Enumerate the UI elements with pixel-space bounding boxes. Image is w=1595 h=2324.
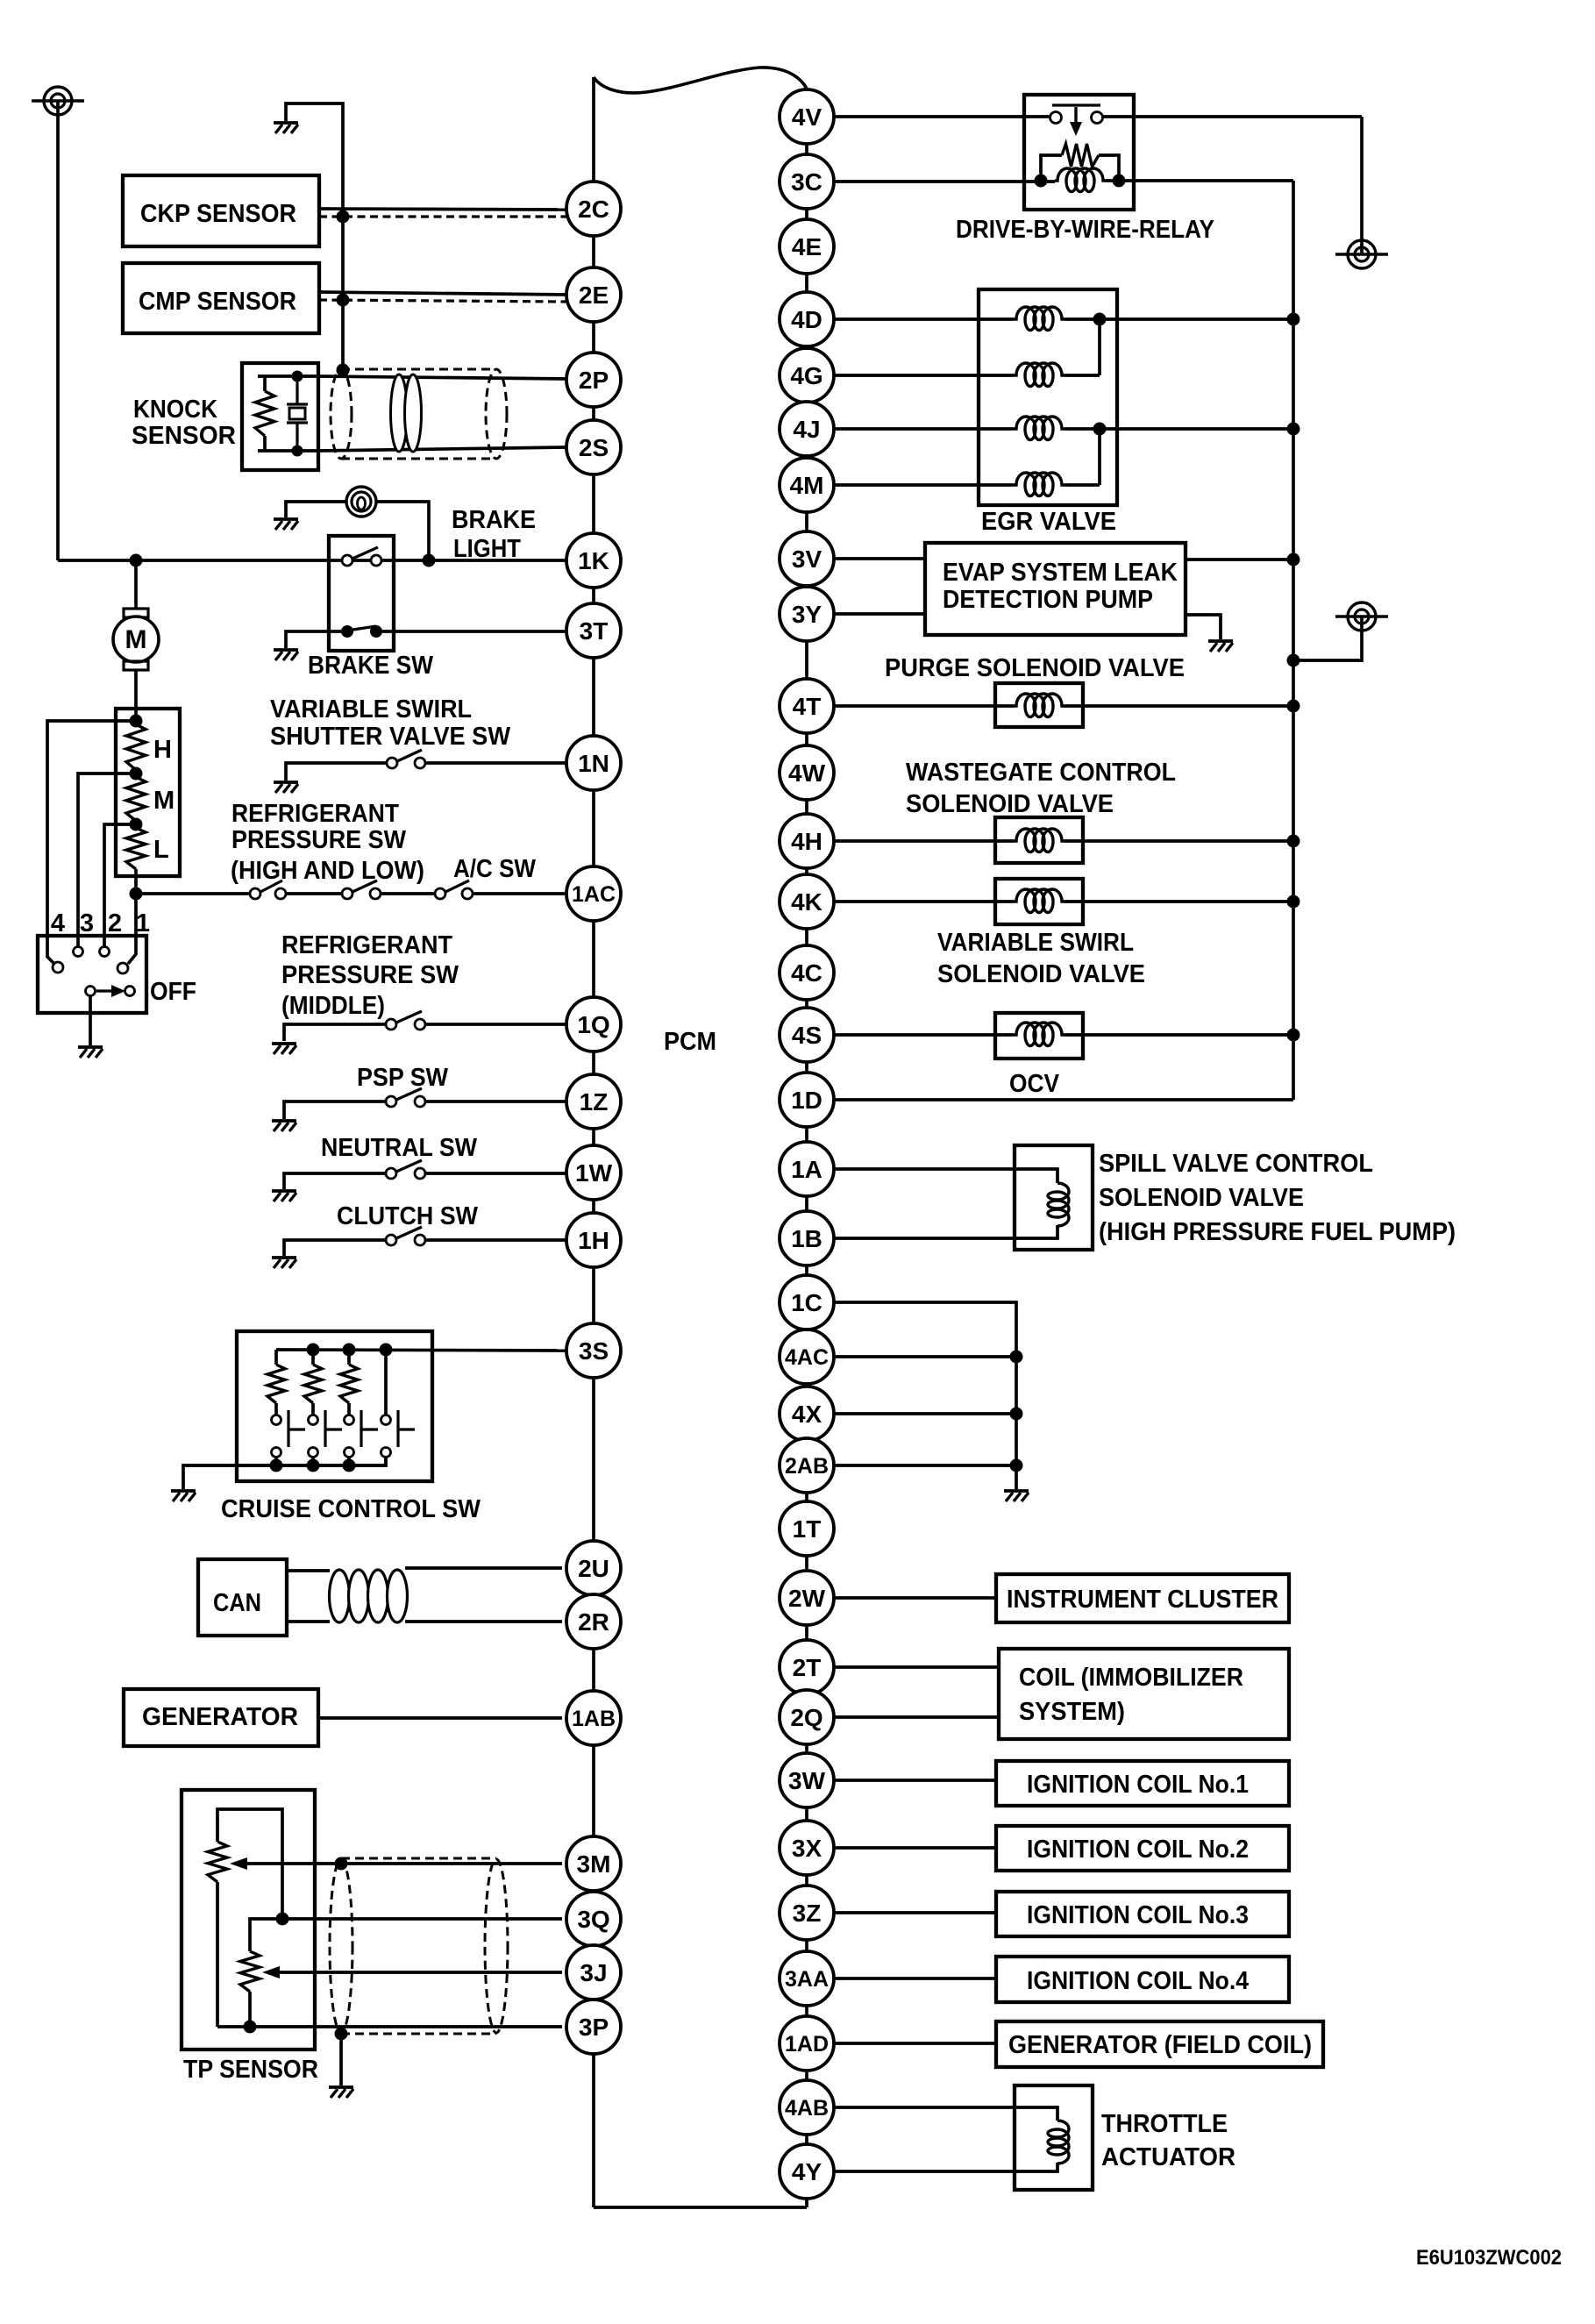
wire swirl coil to bus <box>1065 900 1293 903</box>
contact fan switch 1 <box>117 963 128 973</box>
relay contact pair <box>1050 112 1062 124</box>
wire shield ground bus <box>286 103 343 370</box>
wire cruise branch 2 <box>311 1350 315 1365</box>
svg-text:CKP SENSOR: CKP SENSOR <box>140 200 296 228</box>
svg-text:3C: 3C <box>791 168 822 196</box>
terminal 4M <box>780 458 834 512</box>
svg-text:1AB: 1AB <box>572 1707 616 1731</box>
wire squiggle PCM top <box>594 68 807 93</box>
svg-text:4: 4 <box>51 909 65 937</box>
svg-text:3M: 3M <box>577 1850 611 1878</box>
wire EGR coil1 to bus <box>1065 317 1293 321</box>
terminal 2E <box>566 267 621 322</box>
node TP bottom <box>244 2021 257 2034</box>
wire 1AD to generator field coil <box>834 2042 996 2045</box>
wire 4D to EGR coil1 <box>834 317 1014 321</box>
svg-text:3AA: 3AA <box>785 1967 829 1992</box>
switch cruise plate 3 <box>360 1410 362 1447</box>
svg-text:1AC: 1AC <box>572 882 616 907</box>
switch fan OFF contacts <box>86 987 96 996</box>
node brake light branch <box>423 554 436 567</box>
svg-text:VARIABLE SWIRL: VARIABLE SWIRL <box>270 695 472 724</box>
generator box <box>124 1689 318 1746</box>
svg-text:2P: 2P <box>579 367 609 394</box>
wire knock bottom node <box>258 449 318 453</box>
wire TP bottom to 3P <box>217 2025 562 2028</box>
terminal 2S <box>566 420 621 474</box>
terminal 1D <box>780 1073 834 1127</box>
terminal 3Y <box>780 587 834 641</box>
svg-text:SHUTTER VALVE SW: SHUTTER VALVE SW <box>270 723 511 751</box>
svg-text:1H: 1H <box>578 1227 609 1254</box>
wire EGR vertical link top <box>1098 319 1101 375</box>
wire 4J to EGR coil3 <box>834 427 1014 431</box>
relay coil <box>1055 168 1106 192</box>
svg-text:1D: 1D <box>791 1087 822 1114</box>
wire feed to motor <box>134 560 138 610</box>
terminal 3P <box>566 2000 621 2054</box>
svg-text:(HIGH AND LOW): (HIGH AND LOW) <box>231 857 424 885</box>
svg-text:(MIDDLE): (MIDDLE) <box>281 992 385 1020</box>
wire generator to 1AB <box>318 1716 562 1720</box>
ground EVAP pump <box>1208 639 1233 643</box>
EGR coil 2 <box>1014 363 1065 386</box>
terminal 1AD <box>780 2016 834 2071</box>
wire knock to 2P <box>318 376 566 379</box>
svg-text:2C: 2C <box>578 196 609 223</box>
wire 4G to EGR coil2 <box>834 374 1014 377</box>
contact cruise bottom 4 <box>381 1448 391 1458</box>
svg-text:IGNITION COIL No.1: IGNITION COIL No.1 <box>1027 1771 1249 1799</box>
switch brake SW upper contacts <box>342 555 352 566</box>
svg-text:DETECTION PUMP: DETECTION PUMP <box>943 586 1153 614</box>
svg-text:IGNITION COIL No.4: IGNITION COIL No.4 <box>1027 1967 1249 1995</box>
OCV coil <box>1014 1023 1065 1046</box>
svg-text:1T: 1T <box>793 1515 822 1543</box>
svg-text:BRAKE SW: BRAKE SW <box>308 652 434 680</box>
wire ground symbol to bus <box>1293 617 1362 660</box>
fan switch box <box>38 936 146 1013</box>
purge solenoid box <box>995 683 1083 727</box>
wire CKP to 2C shield dashed <box>319 215 566 217</box>
terminal 4X <box>780 1387 834 1441</box>
svg-text:3Q: 3Q <box>577 1906 609 1933</box>
contact cruise top 3 <box>345 1415 354 1425</box>
terminal 3W <box>780 1753 834 1807</box>
shield knock cable dashed <box>341 368 496 371</box>
svg-text:CLUTCH SW: CLUTCH SW <box>337 1202 479 1230</box>
svg-text:4V: 4V <box>792 103 822 131</box>
wire down to ground symbol <box>1360 117 1364 254</box>
svg-text:1B: 1B <box>791 1225 822 1252</box>
wire ground to clutch switch <box>284 1240 386 1256</box>
instrument cluster box <box>996 1574 1289 1622</box>
terminal 4S <box>780 1008 834 1062</box>
resistor cruise 2 <box>304 1365 322 1403</box>
svg-text:4D: 4D <box>791 306 822 333</box>
terminal 1W <box>566 1145 621 1200</box>
svg-text:3S: 3S <box>579 1337 609 1365</box>
svg-text:PRESSURE SW: PRESSURE SW <box>281 961 459 989</box>
wire 3V to EVAP <box>834 557 925 560</box>
svg-text:2E: 2E <box>579 282 609 309</box>
svg-text:1A: 1A <box>791 1156 822 1183</box>
terminal 4T <box>780 679 834 733</box>
motor M blower <box>124 609 148 617</box>
wire throttle coil to 4Y <box>834 2163 1057 2171</box>
terminal 1Z <box>566 1074 621 1129</box>
switch refrigerant pressure low <box>342 888 352 899</box>
twisted pair CAN bus <box>330 1570 350 1622</box>
terminal 1K <box>566 533 621 588</box>
terminal 3Q <box>566 1892 621 1946</box>
wire spill coil to 1B <box>834 1225 1057 1238</box>
wire CMP to 2E shield dashed <box>319 300 566 302</box>
ignition coil box 3 <box>996 1892 1289 1936</box>
terminal 1C <box>780 1275 834 1330</box>
node bus 4K <box>1287 895 1300 909</box>
node cruise bottom 3 <box>343 1459 356 1472</box>
wire EGR coil4 link <box>1065 483 1100 487</box>
svg-text:3V: 3V <box>792 545 822 573</box>
node bus ground link <box>1287 654 1300 667</box>
EVAP pump box <box>925 543 1186 635</box>
ground neutral switch <box>272 1189 296 1193</box>
wire 3J to TP wiper lower <box>278 1971 562 1974</box>
resistor cruise 1 <box>267 1365 285 1403</box>
svg-text:(HIGH PRESSURE FUEL PUMP): (HIGH PRESSURE FUEL PUMP) <box>1099 1218 1456 1246</box>
wire 2W to instrument cluster <box>834 1596 996 1600</box>
wire TP top loop <box>217 1809 282 1919</box>
wastegate solenoid coil <box>1014 829 1065 852</box>
svg-text:4S: 4S <box>792 1022 822 1049</box>
svg-text:4M: 4M <box>790 472 824 499</box>
svg-text:PURGE SOLENOID VALVE: PURGE SOLENOID VALVE <box>885 654 1185 682</box>
resistor TP lower <box>240 1951 260 1992</box>
svg-text:E6U103ZWC002: E6U103ZWC002 <box>1416 2246 1562 2270</box>
svg-text:4C: 4C <box>791 959 822 987</box>
terminal 1T <box>780 1501 834 1556</box>
throttle actuator box <box>1015 2085 1093 2190</box>
terminal 3C <box>780 154 834 209</box>
wire TP left down <box>216 1882 219 2027</box>
wire ground to PSP switch <box>284 1101 386 1119</box>
terminal 3M <box>566 1836 621 1891</box>
node shield CMP <box>337 294 350 307</box>
svg-text:2: 2 <box>108 909 122 937</box>
contact fan switch 2 <box>100 947 110 957</box>
contact fan switch 3 <box>74 947 83 957</box>
OCV box <box>995 1013 1083 1059</box>
EGR coil 4 <box>1014 473 1065 496</box>
terminal 3J <box>566 1945 621 2000</box>
wire ground to 1N switch <box>286 763 387 781</box>
arrow TP wiper lower <box>262 1966 280 1978</box>
wire CAN bottom out <box>287 1620 330 1623</box>
wire OCV coil to bus <box>1065 1033 1293 1037</box>
svg-text:3J: 3J <box>580 1959 607 1986</box>
ground brake switch <box>274 648 298 652</box>
wire 2T to coil <box>834 1665 999 1669</box>
node knock bottom <box>292 446 303 457</box>
wire relay resistor right <box>1099 155 1119 181</box>
spill valve coil <box>1048 1183 1069 1226</box>
svg-text:GENERATOR: GENERATOR <box>142 1703 298 1731</box>
wire 4X to bracket <box>834 1412 1016 1415</box>
svg-text:2S: 2S <box>579 434 609 461</box>
resistor H <box>126 724 146 770</box>
wire purge coil to bus <box>1065 704 1293 708</box>
knock sensor box <box>242 363 318 470</box>
switch shutter valve <box>387 758 397 768</box>
svg-text:1W: 1W <box>575 1159 613 1187</box>
svg-text:1C: 1C <box>791 1289 822 1316</box>
twisted pair knock cable <box>391 374 408 452</box>
svg-text:1: 1 <box>136 909 150 937</box>
svg-text:CMP SENSOR: CMP SENSOR <box>139 288 296 316</box>
wire to ignition coil 1 <box>834 1779 996 1782</box>
node bus 3V <box>1287 553 1300 567</box>
svg-text:3Y: 3Y <box>792 601 822 628</box>
ground symbol right top <box>1348 240 1376 268</box>
CAN box <box>198 1559 287 1636</box>
ground PSP switch <box>272 1119 296 1123</box>
relay drive-by-wire box <box>1024 95 1134 210</box>
svg-text:2R: 2R <box>578 1608 609 1636</box>
svg-text:COIL (IMMOBILIZER: COIL (IMMOBILIZER <box>1019 1664 1243 1692</box>
svg-text:SOLENOID VALVE: SOLENOID VALVE <box>1099 1184 1304 1212</box>
ground clutch switch <box>272 1256 296 1259</box>
terminal 3X <box>780 1821 834 1875</box>
terminal 4H <box>780 814 834 868</box>
svg-text:4T: 4T <box>793 693 822 720</box>
variable swirl solenoid coil <box>1014 889 1065 913</box>
wire EVAP to ground <box>1186 615 1221 639</box>
wire PCM left column spine <box>592 77 595 2207</box>
svg-text:EVAP SYSTEM LEAK: EVAP SYSTEM LEAK <box>943 559 1178 587</box>
node cruise top 3 <box>343 1344 356 1357</box>
svg-text:DRIVE-BY-WIRE-RELAY: DRIVE-BY-WIRE-RELAY <box>956 216 1214 244</box>
wire 1D to bus bottom <box>834 1098 1293 1101</box>
svg-text:SYSTEM): SYSTEM) <box>1019 1698 1125 1726</box>
node knock top <box>292 371 303 382</box>
node shield 3M <box>335 1857 348 1871</box>
svg-text:IGNITION COIL No.2: IGNITION COIL No.2 <box>1027 1836 1249 1864</box>
node shield knock <box>337 364 350 377</box>
terminal 3V <box>780 531 834 586</box>
wire cruise branch 1 <box>274 1350 278 1365</box>
node tap H-M <box>130 767 143 781</box>
wire CAN to 2R <box>405 1620 562 1623</box>
svg-text:PSP SW: PSP SW <box>357 1064 449 1092</box>
terminal 4C <box>780 945 834 1000</box>
svg-text:2Q: 2Q <box>790 1704 822 1731</box>
wastegate solenoid box <box>995 817 1083 863</box>
CMP sensor box <box>123 263 319 333</box>
EGR coil 1 <box>1014 307 1065 331</box>
terminal 2R <box>566 1594 621 1649</box>
svg-text:4K: 4K <box>791 888 822 916</box>
terminal 2W <box>780 1571 834 1625</box>
ground cruise switch <box>171 1489 196 1493</box>
TP sensor box <box>182 1790 315 2050</box>
svg-text:PCM: PCM <box>664 1028 716 1056</box>
wire 3C to relay coil <box>834 180 1055 183</box>
svg-text:4H: 4H <box>791 828 822 855</box>
node bracket 4X <box>1010 1408 1023 1421</box>
ground brake light <box>274 517 298 521</box>
generator field coil box <box>996 2021 1323 2067</box>
svg-text:CAN: CAN <box>213 1589 261 1617</box>
wire relay to ground right <box>1103 115 1362 118</box>
node relay coil left <box>1035 175 1048 188</box>
wire right power bus <box>1292 181 1295 1100</box>
node TP shield ground <box>335 2028 348 2041</box>
svg-text:OFF: OFF <box>150 978 196 1006</box>
ground 1Q switch <box>272 1042 296 1045</box>
svg-text:3W: 3W <box>788 1767 826 1794</box>
wire CMP to 2E solid <box>319 292 566 295</box>
terminal 3S <box>566 1323 621 1378</box>
svg-text:REFRIGERANT: REFRIGERANT <box>281 931 452 959</box>
wire ground to neutral switch <box>284 1173 386 1189</box>
terminal 4V <box>780 89 834 144</box>
cruise control switch box <box>237 1331 432 1481</box>
svg-text:BRAKE: BRAKE <box>452 506 536 534</box>
node cruise top 4 <box>380 1344 393 1357</box>
wire wastegate coil to bus <box>1065 839 1293 843</box>
terminal 1Q <box>566 997 621 1052</box>
ignition coil box 1 <box>996 1761 1289 1806</box>
svg-text:EGR VALVE: EGR VALVE <box>981 508 1116 536</box>
svg-text:WASTEGATE CONTROL: WASTEGATE CONTROL <box>906 759 1176 787</box>
node shield CKP <box>337 210 350 224</box>
svg-text:4J: 4J <box>793 416 820 443</box>
terminal 4E <box>780 219 834 274</box>
wire CKP to 2C solid <box>319 209 566 210</box>
throttle actuator coil <box>1048 2121 1069 2164</box>
wire 3Y to EVAP <box>834 612 925 616</box>
wire 4H to wastegate coil <box>834 839 1014 843</box>
terminal 4W <box>780 745 834 800</box>
wire 3Q tap down <box>250 1919 282 1951</box>
wire switch to 1N <box>425 761 566 765</box>
node EGR bottom <box>1093 423 1107 436</box>
wire CAN to 2U <box>405 1566 562 1570</box>
node relay coil right <box>1113 175 1126 188</box>
terminal 3AA <box>780 1951 834 2006</box>
node 1AC branch <box>130 888 143 901</box>
wire to ignition coil 3 <box>834 1911 996 1914</box>
svg-text:1AD: 1AD <box>785 2032 829 2057</box>
ignition coil box 4 <box>996 1957 1289 2002</box>
wire cruise branch 3 <box>347 1350 351 1365</box>
ground sensor shields <box>274 121 298 125</box>
svg-text:NEUTRAL SW: NEUTRAL SW <box>321 1134 478 1162</box>
wire 3Q to TP <box>282 1917 562 1921</box>
wire 4AB to throttle coil <box>834 2107 1057 2121</box>
terminal 2U <box>566 1541 621 1595</box>
lamp brake light bulb <box>346 487 376 517</box>
svg-text:3T: 3T <box>580 617 609 645</box>
svg-text:1Q: 1Q <box>577 1011 609 1038</box>
terminal 1N <box>566 736 621 790</box>
purge solenoid coil <box>1014 694 1065 717</box>
terminal 4J <box>780 402 834 456</box>
svg-text:IGNITION COIL No.3: IGNITION COIL No.3 <box>1027 1901 1249 1929</box>
svg-text:4AB: 4AB <box>785 2096 829 2121</box>
svg-text:THROTTLE: THROTTLE <box>1101 2110 1228 2138</box>
svg-text:3P: 3P <box>579 2014 609 2041</box>
shield TP cable dashed <box>341 1857 496 1860</box>
node tap M-L <box>130 818 143 831</box>
terminal 2P <box>566 353 621 407</box>
ground symbol right middle <box>1348 602 1376 631</box>
svg-text:4W: 4W <box>788 759 826 787</box>
ignition coil box 2 <box>996 1826 1289 1871</box>
wire tap1 to fan switch <box>128 894 136 964</box>
switch clutch <box>386 1235 396 1245</box>
wire EVAP to bus <box>1186 558 1293 561</box>
svg-text:REFRIGERANT: REFRIGERANT <box>231 800 399 828</box>
svg-text:2T: 2T <box>793 1654 822 1681</box>
wire PCM right column spine <box>805 89 808 2207</box>
wire 4M to EGR coil4 <box>834 483 1014 487</box>
contact cruise top 4 <box>381 1415 391 1425</box>
EGR coil 3 <box>1014 417 1065 440</box>
svg-text:H: H <box>153 736 172 764</box>
relay actuator arrow <box>1052 103 1100 106</box>
node bus 4D <box>1287 313 1300 326</box>
node bracket 4AC <box>1010 1351 1023 1364</box>
svg-text:M: M <box>153 787 174 815</box>
terminal 1A <box>780 1142 834 1196</box>
svg-text:SENSOR: SENSOR <box>132 422 236 450</box>
brake switch box <box>329 536 394 651</box>
svg-text:1N: 1N <box>578 750 609 777</box>
svg-text:3Z: 3Z <box>793 1900 822 1927</box>
svg-text:L: L <box>153 836 169 864</box>
svg-text:TP SENSOR: TP SENSOR <box>183 2056 318 2084</box>
svg-text:2AB: 2AB <box>785 1454 829 1479</box>
svg-text:KNOCK: KNOCK <box>133 396 217 424</box>
wire tap2 to fan switch <box>104 824 136 946</box>
contact cruise bottom 2 <box>309 1448 318 1458</box>
wire TP shield to ground <box>339 2034 343 2085</box>
node cruise bottom 1 <box>270 1459 283 1472</box>
svg-text:A/C SW: A/C SW <box>453 855 537 883</box>
wire motor to resistor block <box>134 670 138 721</box>
blower resistor box <box>116 709 180 876</box>
wire TP lower resistor down <box>248 1992 252 2027</box>
wire 1C bracket <box>834 1302 1016 1489</box>
wire knock top node <box>258 374 318 378</box>
wire brake switch to 3T <box>382 630 566 633</box>
svg-text:4X: 4X <box>792 1401 822 1428</box>
wire cruise bottom to ground <box>183 1458 386 1489</box>
immobilizer coil box <box>999 1649 1289 1739</box>
wire PCM bottom link <box>594 2206 807 2209</box>
contact cruise top 2 <box>309 1415 318 1425</box>
svg-text:SOLENOID VALVE: SOLENOID VALVE <box>906 790 1114 818</box>
contact cruise top 1 <box>272 1415 281 1425</box>
svg-text:4Y: 4Y <box>792 2158 822 2185</box>
wire tap4 to fan switch <box>47 721 136 964</box>
wire between switches 2 <box>381 892 435 895</box>
terminal 4AB <box>780 2080 834 2135</box>
svg-text:1K: 1K <box>578 547 609 574</box>
node bus 4S <box>1287 1029 1300 1042</box>
